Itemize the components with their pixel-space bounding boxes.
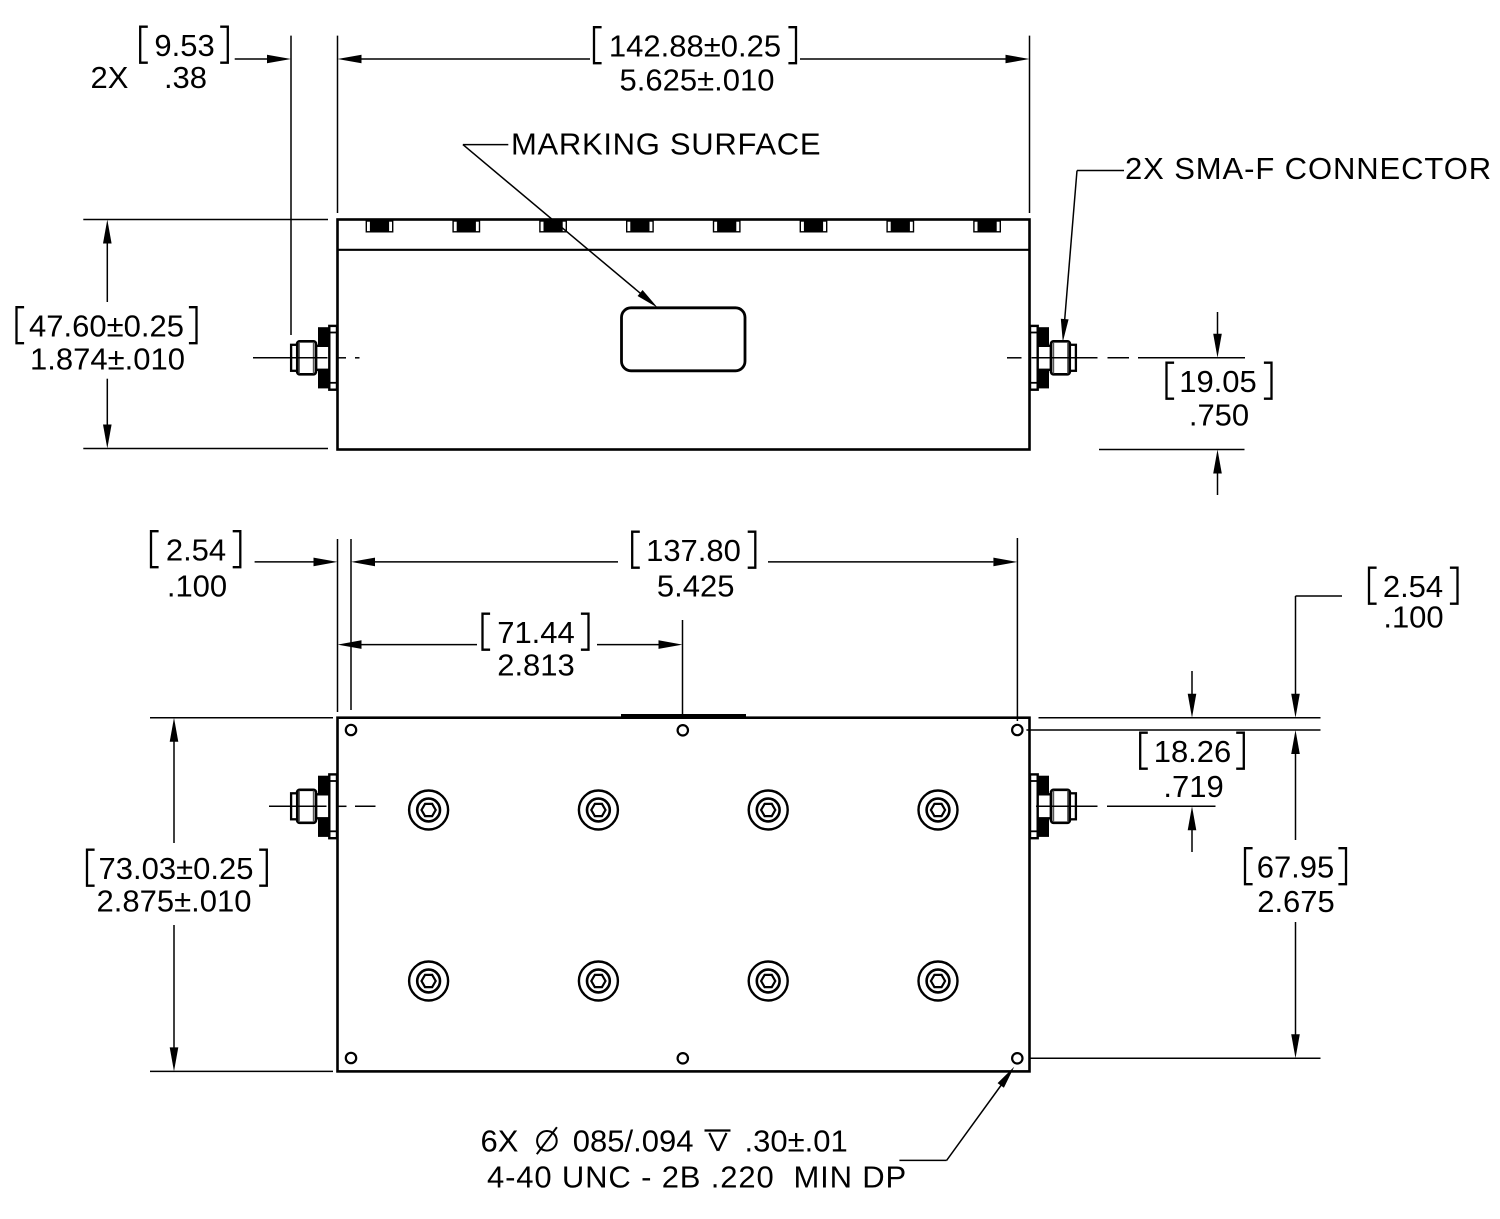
svg-text:2.813: 2.813 — [497, 648, 575, 683]
svg-text:47.60±0.25: 47.60±0.25 — [29, 309, 184, 344]
svg-text:.750: .750 — [1189, 398, 1249, 433]
svg-text:085/.094: 085/.094 — [573, 1124, 694, 1159]
svg-text:2.54: 2.54 — [166, 533, 226, 568]
svg-text:67.95: 67.95 — [1257, 850, 1335, 885]
svg-text:2X SMA-F CONNECTOR: 2X SMA-F CONNECTOR — [1125, 151, 1492, 186]
svg-text:.100: .100 — [167, 569, 227, 604]
svg-text:5.625±.010: 5.625±.010 — [620, 63, 775, 98]
svg-text:142.88±0.25: 142.88±0.25 — [609, 29, 781, 64]
svg-text:4-40 UNC - 2B .220 MIN DP: 4-40 UNC - 2B .220 MIN DP — [487, 1160, 907, 1195]
svg-text:71.44: 71.44 — [497, 615, 575, 650]
svg-text:9.53: 9.53 — [154, 28, 214, 63]
svg-text:5.425: 5.425 — [657, 569, 735, 604]
svg-text:.38: .38 — [164, 60, 207, 95]
svg-text:MARKING SURFACE: MARKING SURFACE — [511, 127, 821, 162]
svg-text:137.80: 137.80 — [646, 533, 741, 568]
svg-text:73.03±0.25: 73.03±0.25 — [99, 851, 254, 886]
svg-text:2X: 2X — [91, 60, 129, 95]
svg-text:.719: .719 — [1163, 769, 1223, 804]
svg-text:.100: .100 — [1383, 600, 1443, 635]
svg-text:19.05: 19.05 — [1179, 364, 1257, 399]
svg-text:6X: 6X — [481, 1124, 519, 1159]
svg-text:18.26: 18.26 — [1154, 734, 1232, 769]
svg-text:.30±.01: .30±.01 — [745, 1124, 848, 1159]
svg-text:2.875±.010: 2.875±.010 — [97, 884, 252, 919]
svg-text:1.874±.010: 1.874±.010 — [30, 342, 185, 377]
svg-text:2.675: 2.675 — [1257, 884, 1335, 919]
